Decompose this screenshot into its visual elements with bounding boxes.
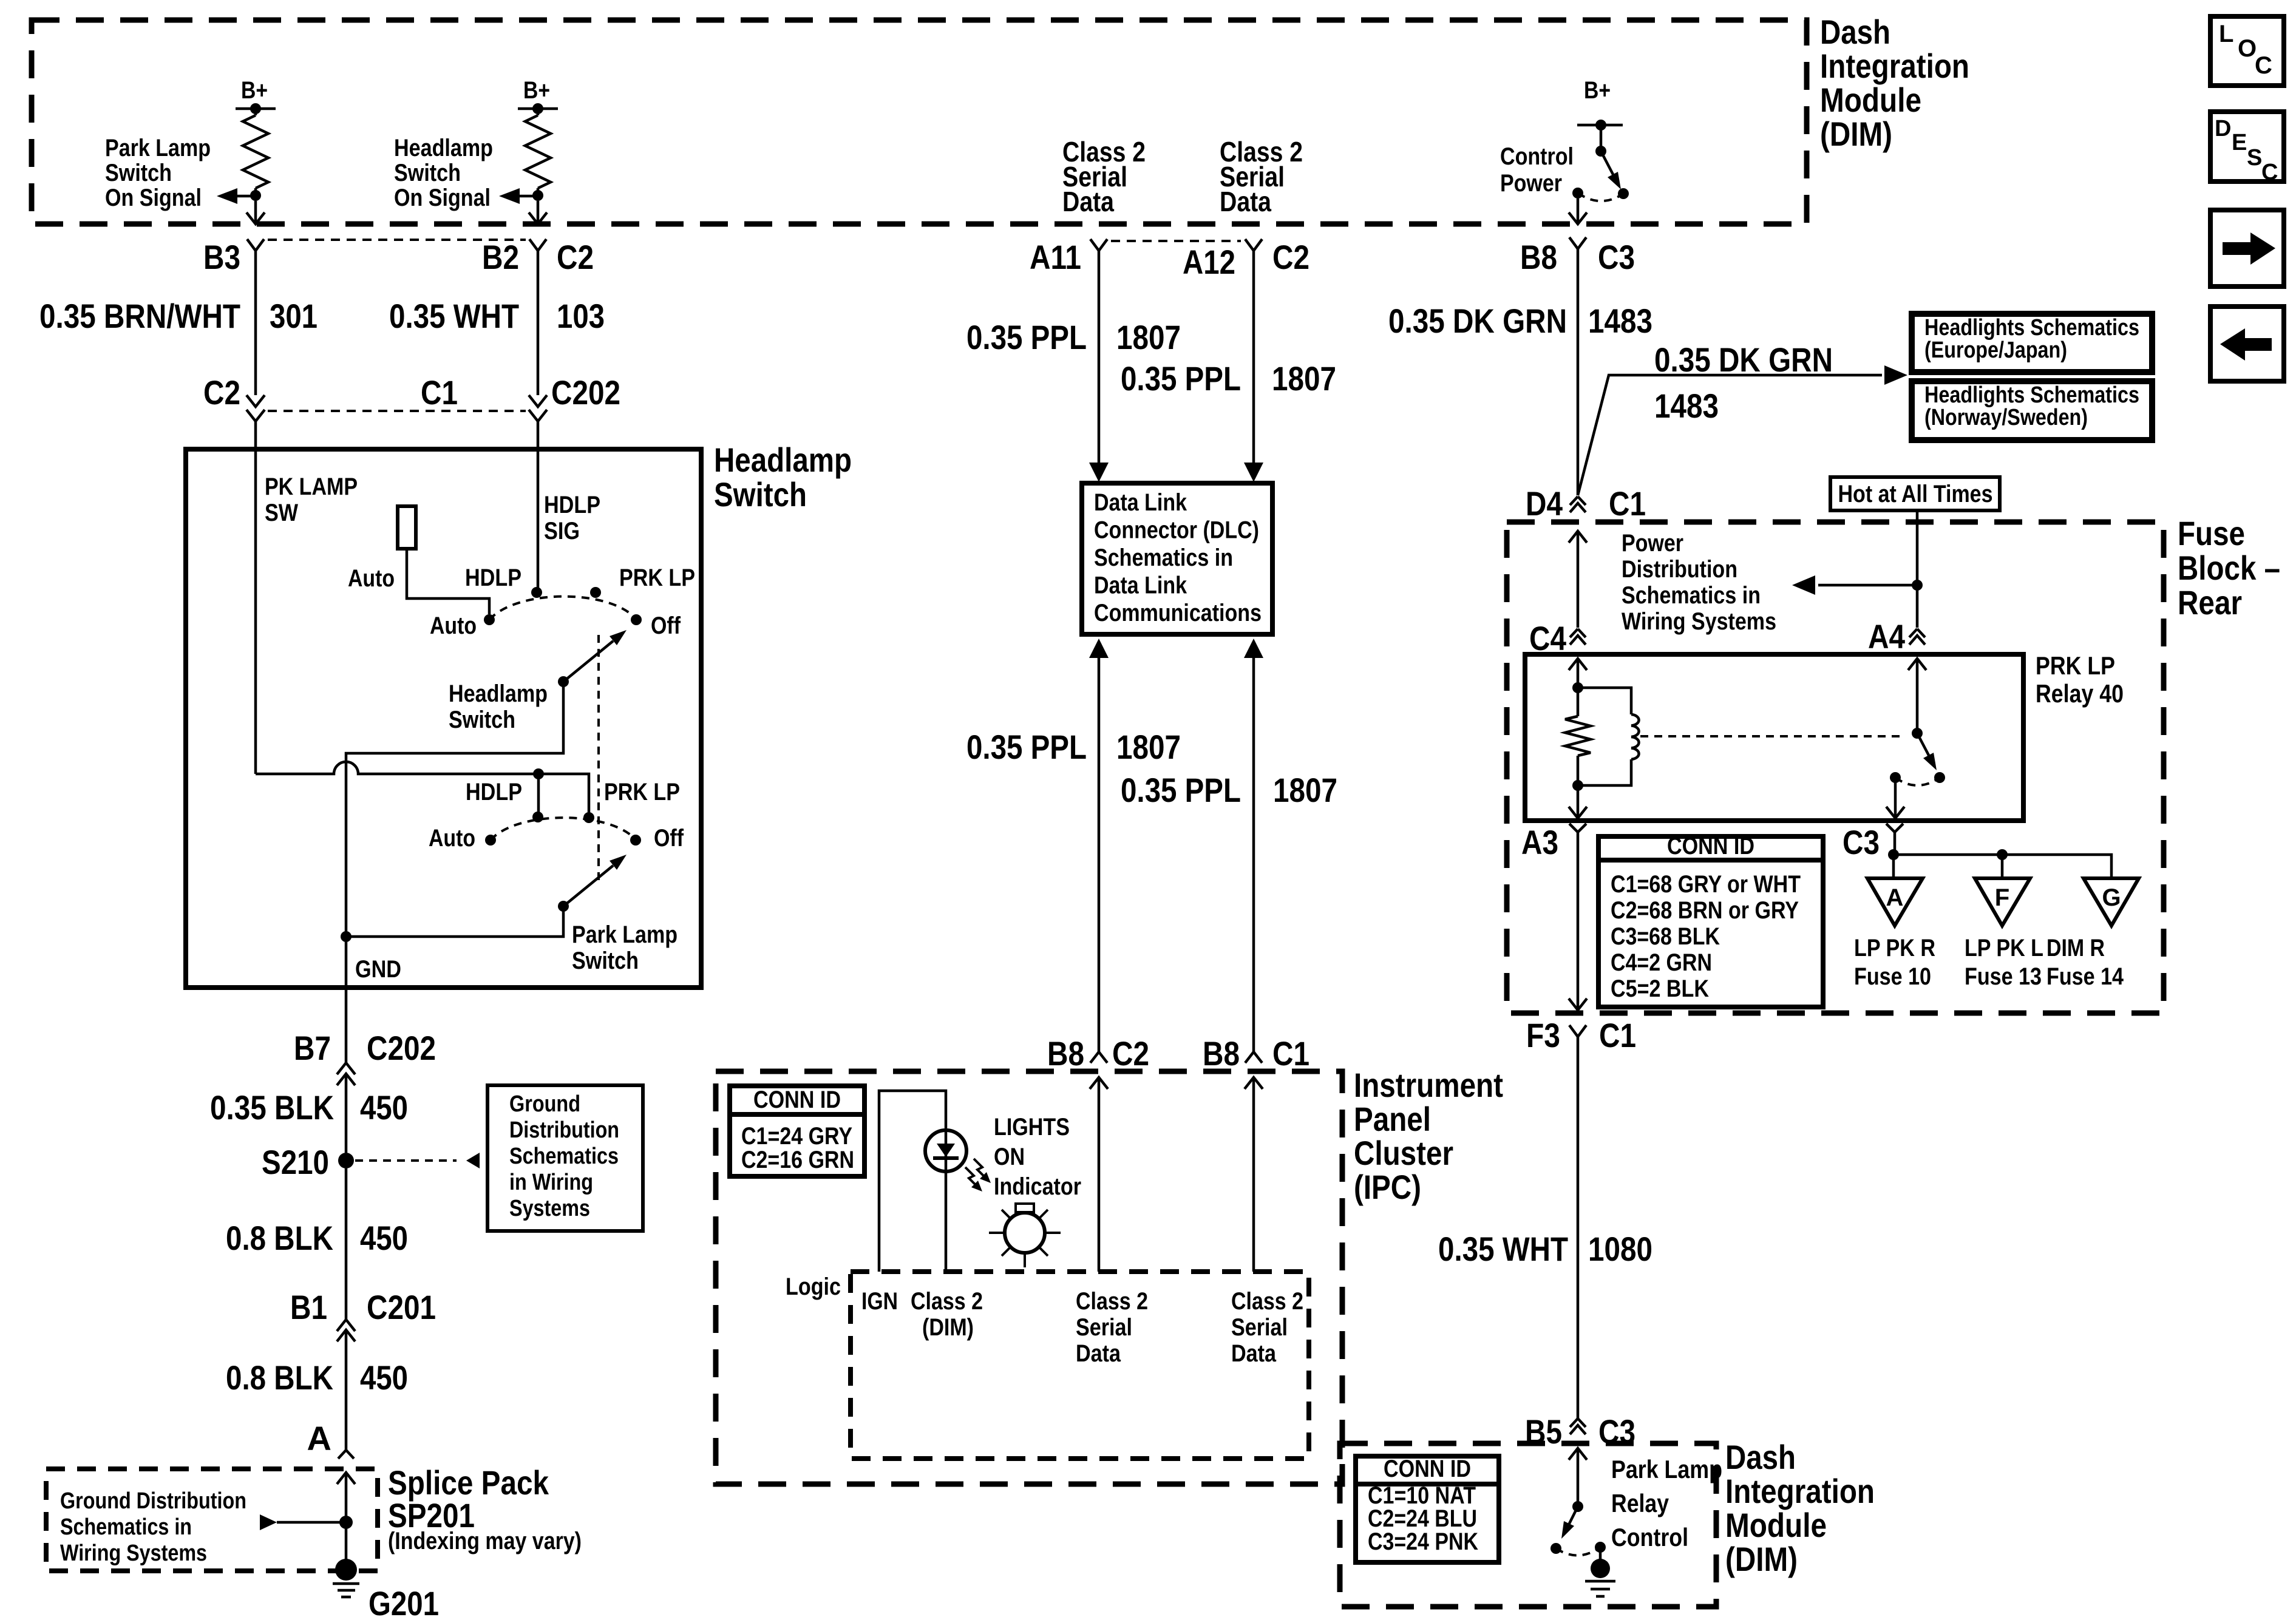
- wire: A3 to fuse block edge: [1577, 832, 1580, 1010]
- module box: Instrument Panel Cluster (IPC) (dashed): [716, 1071, 1342, 1484]
- svg-text:Data: Data: [1076, 1340, 1121, 1367]
- svg-text:B7: B7: [294, 1029, 331, 1067]
- wire: headlamp signal to DIM edge: [537, 201, 540, 224]
- wire 1807: class 2 serial data (A11): [1098, 251, 1101, 464]
- driver travel arc (dashed): [1556, 1547, 1600, 1556]
- module box: Splice Pack SP201 (dashed): [46, 1469, 378, 1571]
- connector C3 below relay: [1886, 824, 1903, 832]
- contact: Auto (headlamp switch): [484, 614, 495, 625]
- svg-text:301: 301: [270, 297, 318, 335]
- icon box: DESC: [2210, 112, 2284, 181]
- svg-text:1807: 1807: [1116, 728, 1181, 766]
- wire: park lamp wiper to ground bus: [346, 906, 563, 937]
- dashed reference line from S210: [355, 1159, 457, 1162]
- svg-text:Cluster: Cluster: [1354, 1134, 1453, 1172]
- connector A4 at relay: [1909, 629, 1925, 637]
- svg-text:Auto: Auto: [430, 612, 477, 639]
- conn id box (fuse block): [1598, 836, 1823, 1007]
- element: auto sensor block: [398, 506, 416, 549]
- connector F3/C1 below fuse block: [1569, 1025, 1586, 1037]
- node: park lamp switch on signal tap: [250, 190, 261, 201]
- contact: HDLP (headlamp switch): [531, 587, 542, 598]
- contact: relay NO: [1890, 772, 1901, 783]
- svg-text:0.35 PPL: 0.35 PPL: [966, 728, 1087, 766]
- svg-text:C5=2 BLK: C5=2 BLK: [1611, 975, 1709, 1002]
- connector interface C200 (dashed): [268, 239, 526, 241]
- svg-text:LIGHTS: LIGHTS: [994, 1114, 1070, 1141]
- svg-text:On Signal: On Signal: [105, 185, 202, 211]
- wire: class 2 serial data (C1) inside IPC: [1245, 1077, 1263, 1089]
- svg-text:S210: S210: [262, 1143, 329, 1181]
- svg-text:F3: F3: [1526, 1016, 1560, 1054]
- icon box: LOC: [2210, 16, 2284, 86]
- svg-text:(Norway/Sweden): (Norway/Sweden): [1924, 405, 2088, 430]
- svg-text:B3: B3: [203, 238, 240, 276]
- conn id box (IPC): [730, 1086, 864, 1176]
- svg-text:Schematics in: Schematics in: [1094, 544, 1233, 571]
- icon box: next arrow: [2210, 210, 2284, 286]
- wire: park lamp signal bus with hop: [256, 762, 586, 774]
- svg-text:Data: Data: [1231, 1340, 1277, 1367]
- svg-text:PRK LP: PRK LP: [2036, 651, 2115, 680]
- svg-text:C202: C202: [367, 1029, 436, 1067]
- arrow: headlamp switch on signal (points left): [499, 188, 520, 204]
- wire: relay common feed: [1908, 659, 1926, 670]
- connector C2/C202 (male chevrons): [246, 395, 265, 407]
- svg-text:Headlights Schematics: Headlights Schematics: [1924, 315, 2139, 341]
- arrow into splice bus (points right): [260, 1514, 277, 1530]
- svg-text:Logic: Logic: [786, 1273, 841, 1300]
- node: coil top junction: [1572, 682, 1583, 693]
- svg-text:C3=68 BLK: C3=68 BLK: [1611, 923, 1720, 950]
- svg-text:Power: Power: [1622, 530, 1683, 557]
- svg-text:Park Lamp: Park Lamp: [572, 921, 678, 948]
- wire: headlamp signal into switch: [537, 421, 540, 591]
- wire: park lamp signal to DIM edge: [254, 201, 257, 224]
- mechanical link (dashed): [597, 635, 600, 880]
- svg-text:PRK LP: PRK LP: [604, 779, 680, 805]
- wire: fuse feed bus: [1894, 832, 2111, 878]
- node: fuse feed junction middle: [1997, 849, 2008, 860]
- LED: lights on indicator: [925, 1130, 966, 1171]
- fuse: DIM R Fuse 14: [2084, 878, 2139, 926]
- fuse: LP PK R Fuse 10: [1867, 878, 1923, 926]
- svg-text:Auto: Auto: [348, 565, 395, 592]
- svg-text:Control: Control: [1611, 1523, 1688, 1551]
- node: junction at lower HDLP drop: [533, 768, 544, 779]
- svg-text:A3: A3: [1521, 823, 1558, 861]
- connector B8/C1 at IPC: [1245, 1052, 1262, 1063]
- svg-text:Schematics: Schematics: [509, 1144, 619, 1169]
- svg-text:Class 2: Class 2: [1231, 1288, 1303, 1315]
- svg-text:Ground Distribution: Ground Distribution: [60, 1488, 246, 1514]
- svg-text:1807: 1807: [1273, 771, 1337, 809]
- connector C4 at relay: [1570, 629, 1586, 637]
- switch: relay armature: [1912, 728, 1923, 739]
- svg-text:C1=24 GRY: C1=24 GRY: [741, 1123, 852, 1150]
- LED emission arrows: [965, 1159, 987, 1188]
- svg-text:0.35 PPL: 0.35 PPL: [1121, 359, 1241, 398]
- switch arm: headlamp switch wiper: [558, 676, 569, 687]
- svg-text:1807: 1807: [1272, 359, 1336, 398]
- arrow: park lamp switch on signal (points left): [217, 188, 237, 204]
- svg-text:A: A: [1886, 884, 1904, 911]
- contact: driver left: [1550, 1543, 1561, 1554]
- svg-text:Integration: Integration: [1820, 47, 1969, 85]
- wire 1483: park lamp relay control: [1577, 249, 1580, 495]
- conn id box (bottom DIM): [1356, 1456, 1499, 1562]
- svg-text:C2: C2: [1112, 1034, 1149, 1073]
- svg-text:Data Link: Data Link: [1094, 572, 1187, 599]
- resistor: park lamp switch pull-up: [254, 109, 257, 115]
- svg-text:S: S: [2247, 145, 2262, 171]
- wire: auto element to auto contact: [407, 549, 489, 614]
- wire: [254, 188, 257, 195]
- ground: DIM internal: [1599, 1547, 1602, 1561]
- svg-text:HDLP: HDLP: [544, 492, 600, 518]
- svg-text:1807: 1807: [1116, 318, 1181, 356]
- dashed actuation link: [1640, 735, 1904, 737]
- wire: drop to lower HDLP contact: [537, 774, 540, 817]
- svg-text:F: F: [1995, 884, 2009, 911]
- connector A at splice pack: [338, 1450, 354, 1459]
- svg-text:1483: 1483: [1588, 302, 1652, 340]
- svg-text:103: 103: [557, 297, 605, 335]
- wire 1080: park lamp relay control: [1577, 1037, 1580, 1419]
- wire: LED to logic: [945, 1171, 948, 1272]
- switch arc (dashed, headlamp rotary): [489, 597, 636, 620]
- svg-text:C1: C1: [1599, 1016, 1636, 1054]
- fuse: LP PK L Fuse 13: [1975, 878, 2030, 926]
- svg-text:IGN: IGN: [861, 1288, 898, 1315]
- connector A12 at DIM (female): [1245, 239, 1262, 251]
- svg-text:Connector (DLC): Connector (DLC): [1094, 517, 1259, 544]
- svg-text:SW: SW: [265, 500, 298, 526]
- svg-text:Off: Off: [654, 825, 684, 852]
- wire 1807 to IPC (B8/C1): [1252, 658, 1255, 1052]
- connector B8/C2 at IPC: [1090, 1052, 1107, 1063]
- svg-text:Rear: Rear: [2178, 583, 2242, 622]
- module box: Dash Integration Module (DIM), bottom (dashed): [1340, 1443, 1716, 1607]
- wire 450 (0.8 BLK lower): [345, 1330, 348, 1450]
- contact: control power left: [1572, 188, 1583, 198]
- wire: control power output to DIM edge: [1577, 198, 1580, 224]
- wire: D4 feed inside fuse block: [1569, 531, 1587, 543]
- svg-text:PK LAMP: PK LAMP: [265, 473, 358, 500]
- splice S210: [338, 1153, 354, 1168]
- node: ground bus junction: [341, 931, 352, 942]
- connector D4/C1 at fuse block: [1570, 497, 1586, 505]
- svg-text:Class 2: Class 2: [911, 1288, 983, 1315]
- svg-text:C1: C1: [421, 373, 458, 412]
- svg-text:Indicator: Indicator: [994, 1173, 1081, 1200]
- svg-text:D: D: [2215, 116, 2231, 141]
- node: coil bottom junction: [1572, 780, 1583, 791]
- wire: GND out of box: [345, 937, 348, 1063]
- svg-text:CONN ID: CONN ID: [1384, 1456, 1471, 1482]
- connector B8/C3 at DIM (female): [1569, 237, 1586, 249]
- connector B3 at DIM (female): [247, 239, 264, 251]
- svg-text:Fuse 10: Fuse 10: [1854, 963, 1931, 990]
- reference box: Ground Distribution Schematics in Wiring Systems: [487, 1085, 643, 1231]
- svg-text:Fuse 13: Fuse 13: [1965, 963, 2042, 990]
- module box: Fuse Block - Rear (dashed): [1507, 522, 2164, 1013]
- svg-text:(Europe/Japan): (Europe/Japan): [1924, 337, 2067, 363]
- svg-text:C1: C1: [1272, 1034, 1309, 1073]
- svg-text:0.8 BLK: 0.8 BLK: [226, 1219, 333, 1257]
- svg-text:Headlamp: Headlamp: [449, 680, 548, 707]
- svg-text:LP PK L: LP PK L: [1965, 935, 2043, 961]
- svg-text:B8: B8: [1203, 1034, 1240, 1073]
- contact: driver right: [1595, 1542, 1606, 1553]
- svg-text:Auto: Auto: [429, 825, 475, 852]
- bulb icon: [1005, 1213, 1045, 1253]
- contact: PRK LP (park lamp switch): [583, 812, 594, 823]
- svg-text:Wiring Systems: Wiring Systems: [60, 1541, 207, 1566]
- svg-text:(DIM): (DIM): [1725, 1540, 1798, 1578]
- svg-text:450: 450: [360, 1219, 408, 1257]
- connector A3 below relay: [1569, 824, 1586, 832]
- svg-text:B+: B+: [1584, 77, 1611, 104]
- svg-text:C: C: [2255, 52, 2272, 79]
- wire: B5 into DIM: [1569, 1448, 1587, 1460]
- svg-text:CONN ID: CONN ID: [1667, 833, 1754, 859]
- svg-text:DIM R: DIM R: [2046, 935, 2105, 961]
- wire 450 (0.35 BLK): [345, 1074, 348, 1153]
- wire 301: park lamp signal: [254, 251, 257, 395]
- connector B2 at DIM (female): [529, 239, 546, 251]
- svg-text:Distribution: Distribution: [1622, 556, 1737, 583]
- svg-text:(DIM): (DIM): [1820, 115, 1892, 153]
- contact: Off (park lamp switch): [630, 835, 641, 846]
- connector interface (dashed): [1111, 240, 1241, 242]
- switch arm: park lamp switch wiper: [558, 901, 569, 912]
- svg-text:Distribution: Distribution: [509, 1117, 619, 1143]
- svg-text:C3=24 PNK: C3=24 PNK: [1368, 1528, 1478, 1555]
- svg-text:A11: A11: [1030, 238, 1081, 276]
- svg-text:C3: C3: [1843, 823, 1880, 861]
- svg-text:Data: Data: [1062, 186, 1114, 217]
- svg-text:Hot at All Times: Hot at All Times: [1838, 481, 1993, 507]
- svg-text:C2=68 BRN or GRY: C2=68 BRN or GRY: [1611, 897, 1799, 924]
- contact: Off (headlamp switch): [631, 614, 642, 625]
- arrow to headlights schematics (points right): [1884, 365, 1907, 385]
- svg-text:Power: Power: [1500, 170, 1562, 197]
- svg-text:Wiring Systems: Wiring Systems: [1622, 608, 1776, 635]
- svg-text:A12: A12: [1183, 243, 1235, 281]
- connector B1/C201 (male chevrons): [337, 1320, 355, 1331]
- contact: Auto (park lamp switch): [485, 835, 496, 846]
- svg-text:1080: 1080: [1588, 1230, 1652, 1268]
- svg-text:Systems: Systems: [509, 1196, 590, 1221]
- svg-text:Control: Control: [1500, 143, 1574, 170]
- svg-text:0.8 BLK: 0.8 BLK: [226, 1358, 333, 1397]
- svg-text:Switch: Switch: [449, 707, 515, 733]
- contact: relay arm rest: [1934, 772, 1945, 783]
- svg-text:Block –: Block –: [2178, 549, 2280, 587]
- arrow from DLC box up (A12): [1244, 639, 1263, 658]
- wire: [537, 188, 540, 195]
- svg-text:C1=68 GRY or WHT: C1=68 GRY or WHT: [1611, 871, 1801, 898]
- reference box: Data Link Connector (DLC) Schematics: [1082, 483, 1272, 634]
- svg-text:Fuse 14: Fuse 14: [2046, 963, 2124, 990]
- svg-text:CONN ID: CONN ID: [753, 1086, 841, 1113]
- wire 450 (0.8 BLK upper): [345, 1168, 348, 1320]
- icon box: back arrow: [2210, 307, 2284, 381]
- reference box: Hot at All Times: [1830, 477, 2000, 510]
- svg-text:0.35 BLK: 0.35 BLK: [210, 1088, 334, 1127]
- node: splice junction: [339, 1516, 353, 1529]
- arrow into DLC box (A11): [1089, 463, 1109, 482]
- resistor: headlamp switch pull-up: [537, 109, 540, 115]
- svg-text:C202: C202: [551, 373, 620, 412]
- svg-text:Dash: Dash: [1820, 13, 1890, 51]
- svg-text:Data: Data: [1220, 186, 1271, 217]
- svg-text:Serial: Serial: [1231, 1314, 1288, 1341]
- connector interface C202 (dashed): [268, 410, 526, 412]
- svg-text:0.35 DK GRN: 0.35 DK GRN: [1388, 302, 1567, 340]
- ground G201: [335, 1559, 357, 1581]
- svg-text:D4: D4: [1526, 484, 1563, 523]
- wire: IGN feed: [879, 1091, 946, 1272]
- component box: PRK LP Relay 40: [1525, 654, 2023, 821]
- connector A11 at DIM (female): [1090, 239, 1107, 251]
- svg-text:0.35 DK GRN: 0.35 DK GRN: [1654, 341, 1833, 379]
- resistor: relay coil suppression: [1565, 716, 1591, 756]
- contact: control power right: [1618, 188, 1629, 199]
- svg-text:Off: Off: [651, 612, 681, 639]
- wire 103: headlamp signal: [537, 251, 540, 395]
- svg-text:Serial: Serial: [1076, 1314, 1132, 1341]
- svg-text:L: L: [2219, 21, 2233, 47]
- svg-text:Instrument: Instrument: [1354, 1066, 1503, 1104]
- svg-text:B1: B1: [290, 1288, 327, 1326]
- svg-text:Class 2: Class 2: [1076, 1288, 1148, 1315]
- svg-text:Headlights Schematics: Headlights Schematics: [1924, 382, 2139, 408]
- connector B5/C3 at DIM: [1570, 1419, 1586, 1427]
- module box: Dash Integration Module (DIM), top: [32, 20, 1807, 224]
- svg-text:Relay 40: Relay 40: [2036, 679, 2124, 708]
- svg-text:Schematics in: Schematics in: [1622, 582, 1761, 609]
- svg-text:Relay: Relay: [1611, 1489, 1669, 1517]
- svg-text:C201: C201: [367, 1288, 436, 1326]
- wire: class 2 serial data (C2) inside IPC: [1090, 1077, 1108, 1089]
- svg-text:0.35 BRN/WHT: 0.35 BRN/WHT: [39, 297, 240, 335]
- svg-text:C2: C2: [203, 373, 240, 412]
- wire 1807: class 2 serial data (A12): [1252, 251, 1255, 464]
- wire: splice to ground: [337, 1473, 355, 1484]
- wire: branch to headlights schematics: [1578, 375, 1882, 495]
- node: fuse feed junction left: [1888, 849, 1899, 860]
- svg-text:Dash: Dash: [1725, 1438, 1796, 1476]
- svg-text:Park Lamp: Park Lamp: [1611, 1455, 1722, 1483]
- svg-text:B+: B+: [523, 77, 550, 104]
- connector C1/C202 (male chevrons): [529, 395, 547, 407]
- svg-text:LP PK R: LP PK R: [1854, 935, 1935, 961]
- svg-text:SIG: SIG: [544, 518, 580, 544]
- svg-text:1483: 1483: [1654, 387, 1719, 425]
- svg-text:C2=16 GRN: C2=16 GRN: [741, 1147, 854, 1173]
- svg-text:450: 450: [360, 1358, 408, 1397]
- svg-text:B8: B8: [1520, 238, 1557, 276]
- svg-text:Panel: Panel: [1354, 1100, 1431, 1138]
- svg-text:C2: C2: [1272, 238, 1309, 276]
- inductor: relay coil: [1578, 688, 1631, 714]
- arrow to S210 (points left): [466, 1153, 480, 1168]
- node: headlamp switch on signal tap: [532, 190, 543, 201]
- svg-text:C3: C3: [1598, 238, 1635, 276]
- switch arc (dashed, park lamp rotary): [491, 818, 636, 840]
- svg-text:C4=2 GRN: C4=2 GRN: [1611, 949, 1712, 976]
- arrow: power distribution reference (points left): [1818, 584, 1917, 587]
- svg-text:C2: C2: [557, 238, 594, 276]
- wire: relay output: [1894, 778, 1897, 821]
- svg-text:B+: B+: [241, 77, 268, 104]
- arrow from DLC box up (A11): [1089, 639, 1109, 658]
- svg-text:HDLP: HDLP: [466, 779, 522, 805]
- wire 1807 to IPC (B8/C2): [1098, 658, 1101, 1052]
- svg-text:C1: C1: [1609, 484, 1646, 523]
- svg-text:(Indexing may vary): (Indexing may vary): [388, 1528, 582, 1554]
- svg-text:450: 450: [360, 1088, 408, 1127]
- svg-text:Data Link: Data Link: [1094, 489, 1187, 516]
- module box: Headlamp Switch: [186, 449, 701, 988]
- svg-text:Communications: Communications: [1094, 600, 1262, 626]
- svg-text:Switch: Switch: [105, 160, 172, 186]
- svg-text:A4: A4: [1868, 617, 1905, 656]
- svg-text:Switch: Switch: [714, 475, 807, 514]
- svg-text:Integration: Integration: [1725, 1472, 1875, 1510]
- wire: headlamp wiper to ground bus: [346, 682, 563, 937]
- svg-text:(DIM): (DIM): [922, 1314, 974, 1341]
- connector B7/C202 (male chevrons): [337, 1063, 355, 1074]
- reference box: Headlights Schematics (Europe/Japan): [1912, 314, 2152, 372]
- wire: park lamp signal into switch: [254, 421, 257, 774]
- node: hot feed junction: [1912, 580, 1923, 591]
- svg-text:Headlamp: Headlamp: [394, 135, 493, 161]
- wire: relay coil feed: [1569, 659, 1587, 670]
- svg-text:0.35 PPL: 0.35 PPL: [1121, 771, 1241, 809]
- switch: control power, moving arm: [1600, 125, 1603, 151]
- svg-text:0.35 WHT: 0.35 WHT: [389, 297, 519, 335]
- svg-text:in Wiring: in Wiring: [509, 1170, 593, 1195]
- svg-text:B2: B2: [482, 238, 519, 276]
- relay travel arc (dashed): [1895, 778, 1940, 785]
- svg-text:Park Lamp: Park Lamp: [105, 135, 211, 161]
- svg-text:C4: C4: [1529, 619, 1566, 657]
- svg-text:0.35 PPL: 0.35 PPL: [966, 318, 1087, 356]
- logic box (dashed): [851, 1272, 1309, 1459]
- svg-text:O: O: [2238, 35, 2257, 62]
- svg-text:Switch: Switch: [394, 160, 461, 186]
- svg-text:Module: Module: [1725, 1506, 1827, 1544]
- svg-text:C: C: [2261, 160, 2278, 185]
- svg-text:A: A: [307, 1419, 331, 1457]
- reference box: Headlights Schematics (Norway/Sweden): [1912, 381, 2152, 440]
- svg-text:ON: ON: [994, 1144, 1025, 1170]
- svg-text:(IPC): (IPC): [1354, 1168, 1421, 1206]
- svg-text:G: G: [2102, 884, 2121, 911]
- svg-text:HDLP: HDLP: [465, 564, 521, 591]
- wire: hot feed into fuse block: [1916, 510, 1919, 628]
- svg-text:Ground: Ground: [509, 1091, 580, 1117]
- svg-text:PRK LP: PRK LP: [619, 564, 695, 591]
- wire: drop to lower PRK LP contact: [586, 774, 589, 818]
- switch travel arc (dashed): [1578, 193, 1623, 201]
- svg-text:On Signal: On Signal: [394, 185, 491, 211]
- svg-text:0.35 WHT: 0.35 WHT: [1438, 1230, 1568, 1268]
- svg-text:G201: G201: [369, 1584, 439, 1617]
